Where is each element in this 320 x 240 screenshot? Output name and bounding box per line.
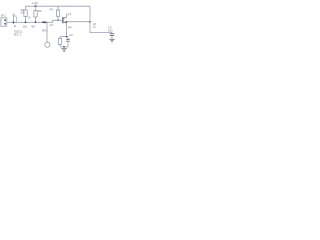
switch S1 body (16, 17, 18, 22)
svg-text:BT1: BT1 (1, 13, 6, 17)
microphone MK1 (45, 42, 50, 47)
svg-text:10u: 10u (108, 28, 113, 32)
svg-text:R2: R2 (38, 9, 42, 13)
node input junctions (25, 21, 27, 23)
wire top rail (26, 5, 91, 7)
wire stub at x13.5 (13, 16, 15, 24)
capacitor C1 inline blob (43, 21, 46, 23)
transistor Q1 (63, 12, 72, 23)
wire emitter vertical (66, 23, 68, 36)
svg-text:1u: 1u (93, 25, 96, 29)
wire emitter split top (60, 36, 68, 38)
svg-text:C3: C3 (69, 33, 73, 37)
node S1 junction (13, 21, 15, 23)
ground symbol output (109, 39, 114, 42)
resistor R4 (58, 37, 61, 47)
svg-text:1k: 1k (28, 15, 31, 19)
battery BT1 (1, 13, 7, 26)
node R2 bottom junction (35, 21, 37, 23)
svg-text:Q1: Q1 (67, 12, 71, 16)
wire input horizontal (7, 20, 63, 22)
svg-text:a1: a1 (14, 25, 17, 28)
resistor R3 (50, 6, 60, 21)
node ground junction (63, 46, 65, 48)
svg-text:10k: 10k (23, 25, 28, 29)
wire output horizontal (90, 32, 112, 34)
capacitor C5 (110, 33, 114, 40)
resistor R1 (21, 6, 28, 22)
svg-text:R4: R4 (68, 25, 72, 29)
svg-text:R3: R3 (50, 8, 54, 12)
node emitter split (66, 36, 68, 38)
wire right vertical (89, 6, 91, 32)
node collector junction (66, 21, 68, 23)
svg-text:MIC 2: MIC 2 (14, 32, 22, 36)
wire collector to right (67, 21, 91, 23)
svg-text:1M: 1M (21, 11, 25, 15)
svg-text:MK1: MK1 (42, 29, 48, 33)
node rail junction (35, 5, 37, 7)
svg-text:C2: C2 (50, 23, 54, 27)
wire emitter bottom join (60, 46, 68, 48)
svg-text:4k7: 4k7 (31, 25, 36, 29)
capacitor C3 (66, 33, 73, 47)
resistor R2 (34, 6, 42, 22)
ground symbol main (61, 47, 66, 52)
wire mic vertical (46, 22, 48, 42)
node right junction (89, 21, 91, 23)
svg-text:+9V: +9V (32, 1, 39, 5)
svg-text:S1: S1 (12, 12, 16, 16)
